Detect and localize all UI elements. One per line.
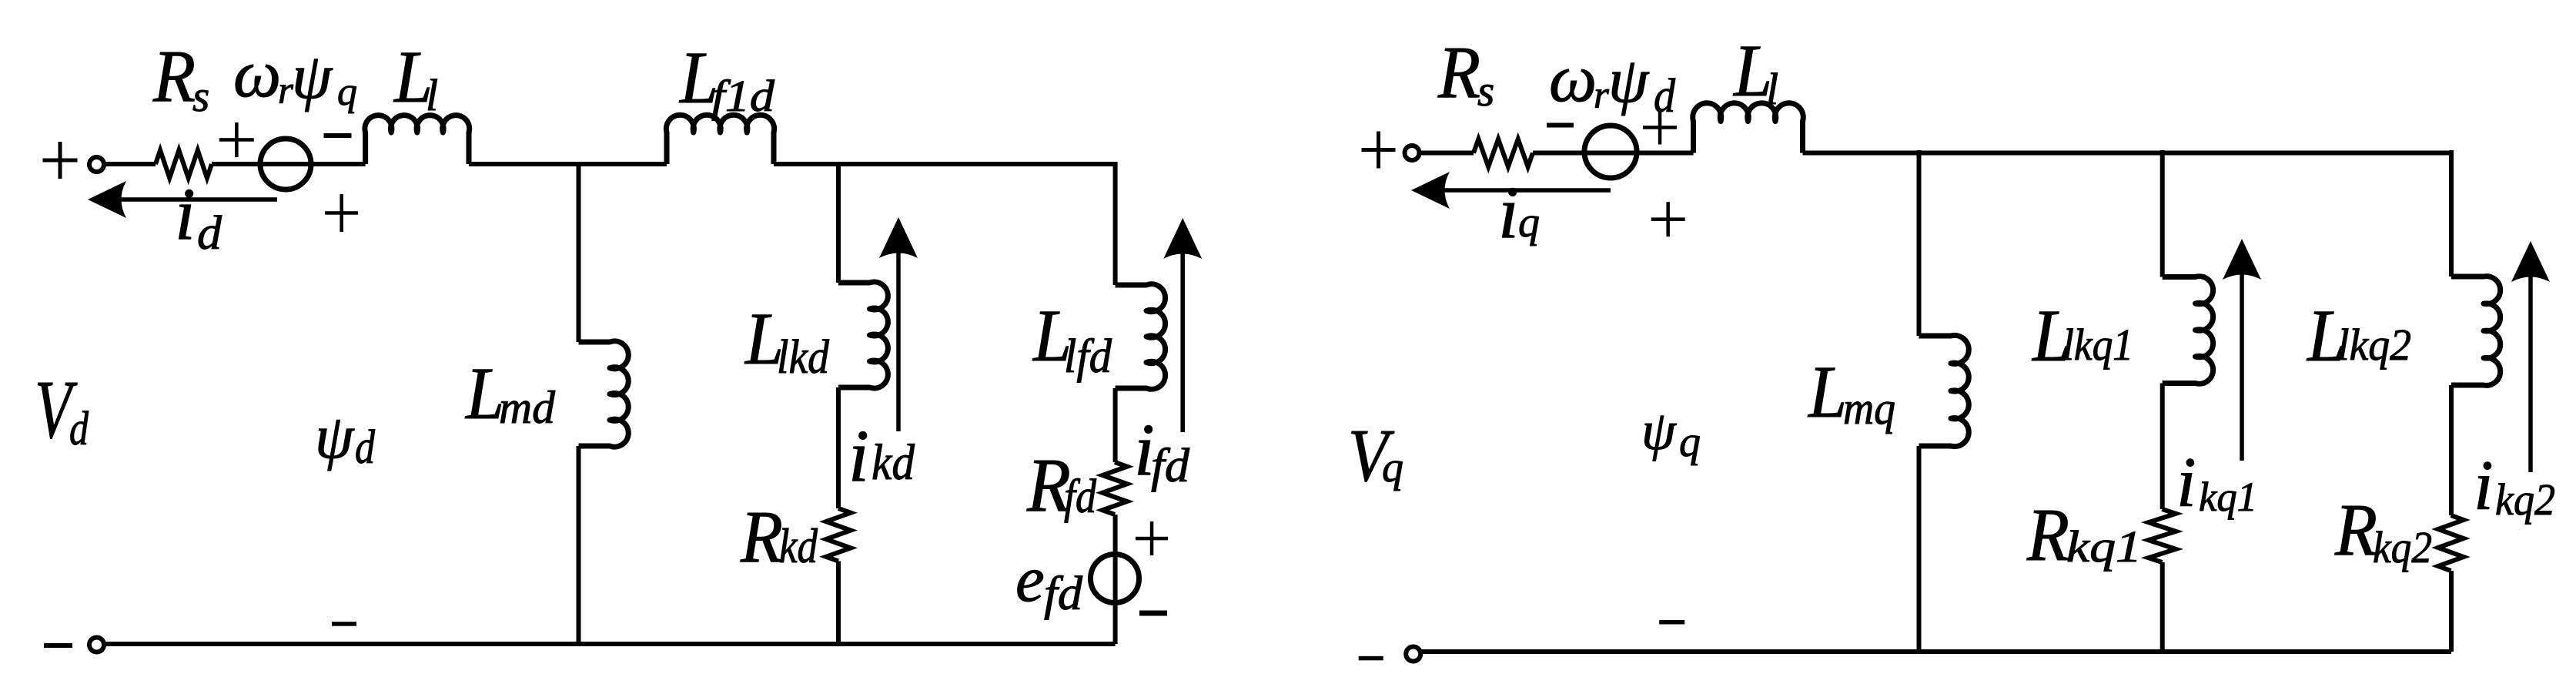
inductor L_md	[579, 341, 629, 447]
svg-text:d: d	[1654, 70, 1676, 122]
minus: psi_d polarity bottom	[332, 622, 356, 626]
plus: psi_d polarity top	[325, 211, 358, 215]
resistor R_kd	[826, 508, 851, 562]
svg-text:r: r	[1594, 74, 1609, 117]
inductor L_lkq2	[2451, 277, 2501, 386]
svg-text:i: i	[2176, 443, 2196, 521]
arrow i_d	[88, 181, 277, 218]
svg-text:i: i	[1498, 171, 1519, 253]
terminal node (+) of V_q	[1405, 146, 1420, 160]
arrow i_kd	[879, 217, 918, 431]
wire: L_mq branch lower	[1917, 446, 1922, 652]
svg-text:l: l	[1766, 64, 1778, 114]
svg-text:lfd: lfd	[1064, 330, 1112, 383]
svg-text:d: d	[69, 403, 89, 455]
inductor L_mq	[1919, 335, 1969, 446]
svg-text:fd: fd	[1064, 471, 1097, 523]
svg-text:q: q	[1518, 199, 1540, 246]
wire: damper-d branch middle	[836, 387, 841, 508]
inductor L_l (q-axis)	[1693, 103, 1804, 153]
minus: psi_q polarity bottom	[1659, 620, 1684, 625]
svg-text:fd: fd	[1151, 440, 1190, 492]
svg-text:ψ: ψ	[292, 41, 333, 112]
svg-text:ω: ω	[1549, 42, 1597, 116]
plus: speed-voltage polarity left	[219, 138, 254, 142]
resistor R_s (d-axis)	[156, 150, 212, 178]
minus: speed-voltage polarity right	[324, 133, 352, 138]
svg-text:R: R	[1437, 31, 1480, 113]
svg-text:r: r	[278, 69, 293, 112]
terminal node (+) of V_d	[89, 157, 104, 172]
wire: damper-q2 branch middle	[2449, 385, 2454, 515]
inductor L_lkd	[838, 282, 888, 388]
dependent source w_r*psi_q	[260, 139, 311, 189]
arrow i_kq1	[2223, 239, 2261, 461]
wire: damper-q1 branch middle	[2160, 384, 2165, 510]
svg-text:l: l	[426, 70, 438, 120]
svg-text:ω: ω	[233, 37, 281, 112]
svg-text:R: R	[2026, 494, 2069, 576]
minus: speed-voltage polarity left (q)	[1547, 123, 1574, 128]
wire: damper-d branch lower	[836, 562, 841, 645]
plus: V_q terminal polarity	[1362, 148, 1396, 152]
svg-text:s: s	[1477, 67, 1494, 116]
dependent source w_r*psi_d	[1584, 126, 1637, 178]
resistor R_kq1	[2149, 509, 2176, 562]
svg-text:lkq1: lkq1	[2062, 320, 2133, 370]
inductor L_lfd	[1116, 284, 1166, 390]
svg-text:kq1: kq1	[2199, 474, 2257, 520]
wire: R_s through source to L_l	[212, 162, 366, 166]
plus: psi_q polarity top	[1651, 217, 1685, 221]
svg-text:fd: fd	[1044, 568, 1083, 620]
svg-text:i: i	[175, 173, 196, 255]
svg-text:q: q	[337, 70, 357, 114]
terminal node (-) of V_q	[1406, 647, 1420, 662]
svg-text:lkq2: lkq2	[2337, 320, 2411, 370]
minus: e_fd polarity	[1139, 611, 1167, 616]
wire: R_s through source to L_l (q)	[1533, 151, 1694, 156]
plus: V_d terminal polarity	[43, 159, 78, 163]
svg-text:kd: kd	[871, 434, 915, 491]
wire: damper-q1 branch lower	[2160, 562, 2165, 652]
plus: e_fd polarity	[1136, 537, 1168, 541]
resistor R_fd	[1102, 462, 1127, 515]
svg-text:q: q	[1679, 418, 1701, 466]
inductor L_lkq1	[2163, 277, 2213, 384]
wire: terminal to R_s (q)	[1419, 151, 1474, 156]
wire: L_md branch lower	[577, 446, 581, 644]
wire: damper-q1 branch upper	[2160, 150, 2165, 277]
svg-text:q: q	[1382, 444, 1403, 491]
svg-text:mq: mq	[1843, 383, 1895, 434]
wire: damper-d branch upper	[836, 162, 841, 283]
arrow i_kq2	[2511, 241, 2550, 472]
wire: L_f1d to field branch corner	[774, 162, 1116, 166]
arrow i_q	[1411, 172, 1611, 209]
svg-text:i: i	[2474, 446, 2494, 525]
svg-text:kq1: kq1	[2066, 521, 2142, 572]
svg-text:d: d	[355, 421, 376, 474]
svg-text:lkd: lkd	[777, 331, 830, 384]
plus: speed-voltage polarity right (q)	[1643, 126, 1677, 129]
wire: L_mq branch upper	[1917, 150, 1922, 336]
svg-text:kq2: kq2	[2495, 474, 2555, 525]
terminal node (-) of V_d	[89, 638, 104, 652]
svg-text:R: R	[740, 495, 783, 578]
top wire q-axis with nodes	[1803, 151, 2452, 156]
svg-text:kq2: kq2	[2373, 522, 2432, 572]
wire: damper-q2 branch lower	[2449, 571, 2454, 652]
svg-text:f1d: f1d	[711, 71, 775, 121]
bottom wire q-axis	[1420, 649, 2451, 654]
svg-text:md: md	[499, 382, 556, 433]
svg-text:ψ: ψ	[1608, 45, 1650, 116]
wire: damper-q2 branch upper	[2449, 150, 2454, 277]
svg-text:ψ: ψ	[315, 402, 355, 471]
wire: L_md branch upper	[577, 162, 581, 342]
wire: field branch upper	[1113, 162, 1118, 285]
wire: field branch middle	[1113, 388, 1118, 462]
minus: V_d terminal polarity	[44, 643, 72, 648]
wire: L_l to L_f1d with node at 751.5	[469, 162, 667, 166]
svg-text:i: i	[848, 414, 869, 497]
arrow i_fd	[1163, 218, 1202, 432]
wire: field branch lower through e_fd	[1113, 515, 1118, 644]
resistor R_kq2	[2438, 515, 2464, 571]
svg-text:ψ: ψ	[1641, 400, 1677, 461]
bottom wire d-axis	[104, 642, 1116, 646]
svg-text:R: R	[2334, 488, 2377, 571]
svg-text:L: L	[1807, 350, 1847, 433]
svg-text:d: d	[197, 207, 222, 260]
voltage source e_fd	[1091, 555, 1139, 603]
resistor R_s (q-axis)	[1474, 139, 1533, 167]
minus: V_q terminal polarity	[1359, 656, 1383, 661]
wire: terminal to R_s	[104, 162, 156, 166]
inductor L_f1d	[666, 115, 774, 164]
svg-text:s: s	[192, 72, 209, 121]
svg-text:e: e	[1015, 543, 1045, 615]
inductor L_l (d-axis)	[365, 116, 470, 164]
svg-text:kd: kd	[779, 518, 818, 573]
svg-text:R: R	[152, 35, 196, 117]
